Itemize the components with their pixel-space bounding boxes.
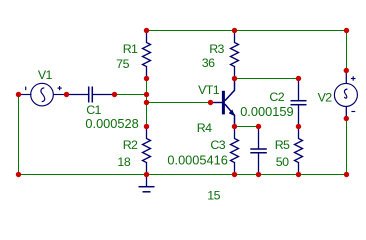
svg-text:0.000528: 0.000528 xyxy=(85,116,138,131)
ground xyxy=(139,175,155,192)
capacitor C3 xyxy=(250,127,266,175)
capacitor C2 xyxy=(291,79,307,127)
wire top rail xyxy=(147,30,347,32)
node emitter xyxy=(232,124,237,129)
node collector xyxy=(232,76,237,81)
wire left rail xyxy=(18,95,20,175)
source V2 xyxy=(334,71,357,119)
svg-text:V2: V2 xyxy=(318,90,333,104)
node dots xyxy=(16,28,349,177)
svg-text:C2: C2 xyxy=(269,90,284,104)
node rail base junction xyxy=(144,100,149,105)
wire base xyxy=(147,102,211,104)
svg-text:75: 75 xyxy=(116,57,129,71)
resistor R3 xyxy=(231,31,239,79)
svg-text:VT1: VT1 xyxy=(198,83,220,97)
node C3 top xyxy=(256,124,261,129)
svg-text:R2: R2 xyxy=(123,138,138,152)
node V2 bottom xyxy=(344,116,349,121)
node V1 minus pin xyxy=(16,92,21,97)
svg-text:C3: C3 xyxy=(210,138,225,152)
node R4 bottom xyxy=(232,172,237,177)
node C2 bottom R5 top xyxy=(296,124,301,129)
wire right rail lower xyxy=(346,119,348,175)
transistor VT1 xyxy=(211,79,236,127)
node ground junction xyxy=(144,172,149,177)
node bottom left corner xyxy=(16,172,21,177)
svg-text:R5: R5 xyxy=(275,138,290,152)
source V1 xyxy=(19,83,67,106)
node C2 top xyxy=(296,76,301,81)
node R2 top xyxy=(144,124,149,129)
wire right rail upper xyxy=(346,31,348,71)
node base pin xyxy=(208,100,213,105)
svg-text:50: 50 xyxy=(276,155,289,169)
node rail C1 junction xyxy=(144,92,149,97)
wire collector node xyxy=(235,78,299,80)
node R1 bottom xyxy=(144,76,149,81)
wire emitter node xyxy=(235,126,259,128)
resistor R5 xyxy=(295,127,303,175)
node R1 top xyxy=(144,28,149,33)
wire bottom rail xyxy=(19,174,347,176)
node V2 top xyxy=(344,68,349,73)
svg-text:R3: R3 xyxy=(209,42,224,56)
svg-text:R4: R4 xyxy=(197,121,212,135)
svg-text:V1: V1 xyxy=(38,68,53,82)
node top right corner xyxy=(344,28,349,33)
node C1 right pin xyxy=(112,92,117,97)
node R5 bottom xyxy=(296,172,301,177)
wire mid rail R1-R2 xyxy=(146,79,148,127)
node R3 top xyxy=(232,28,237,33)
svg-text:15: 15 xyxy=(207,188,220,202)
resistor R1 xyxy=(143,31,151,79)
svg-text:18: 18 xyxy=(117,155,130,169)
resistor R4 xyxy=(231,127,239,175)
wire C1 to node B xyxy=(115,94,147,96)
node V1 plus pin xyxy=(64,92,69,97)
svg-text:0.000159: 0.000159 xyxy=(240,104,293,119)
node bottom right corner xyxy=(344,172,349,177)
svg-text:R1: R1 xyxy=(123,42,138,56)
svg-text:36: 36 xyxy=(202,56,215,70)
node C3 bottom xyxy=(256,172,261,177)
capacitor C1 xyxy=(67,87,115,103)
resistor R2 xyxy=(143,127,151,175)
svg-text:0.0005416: 0.0005416 xyxy=(167,153,228,168)
